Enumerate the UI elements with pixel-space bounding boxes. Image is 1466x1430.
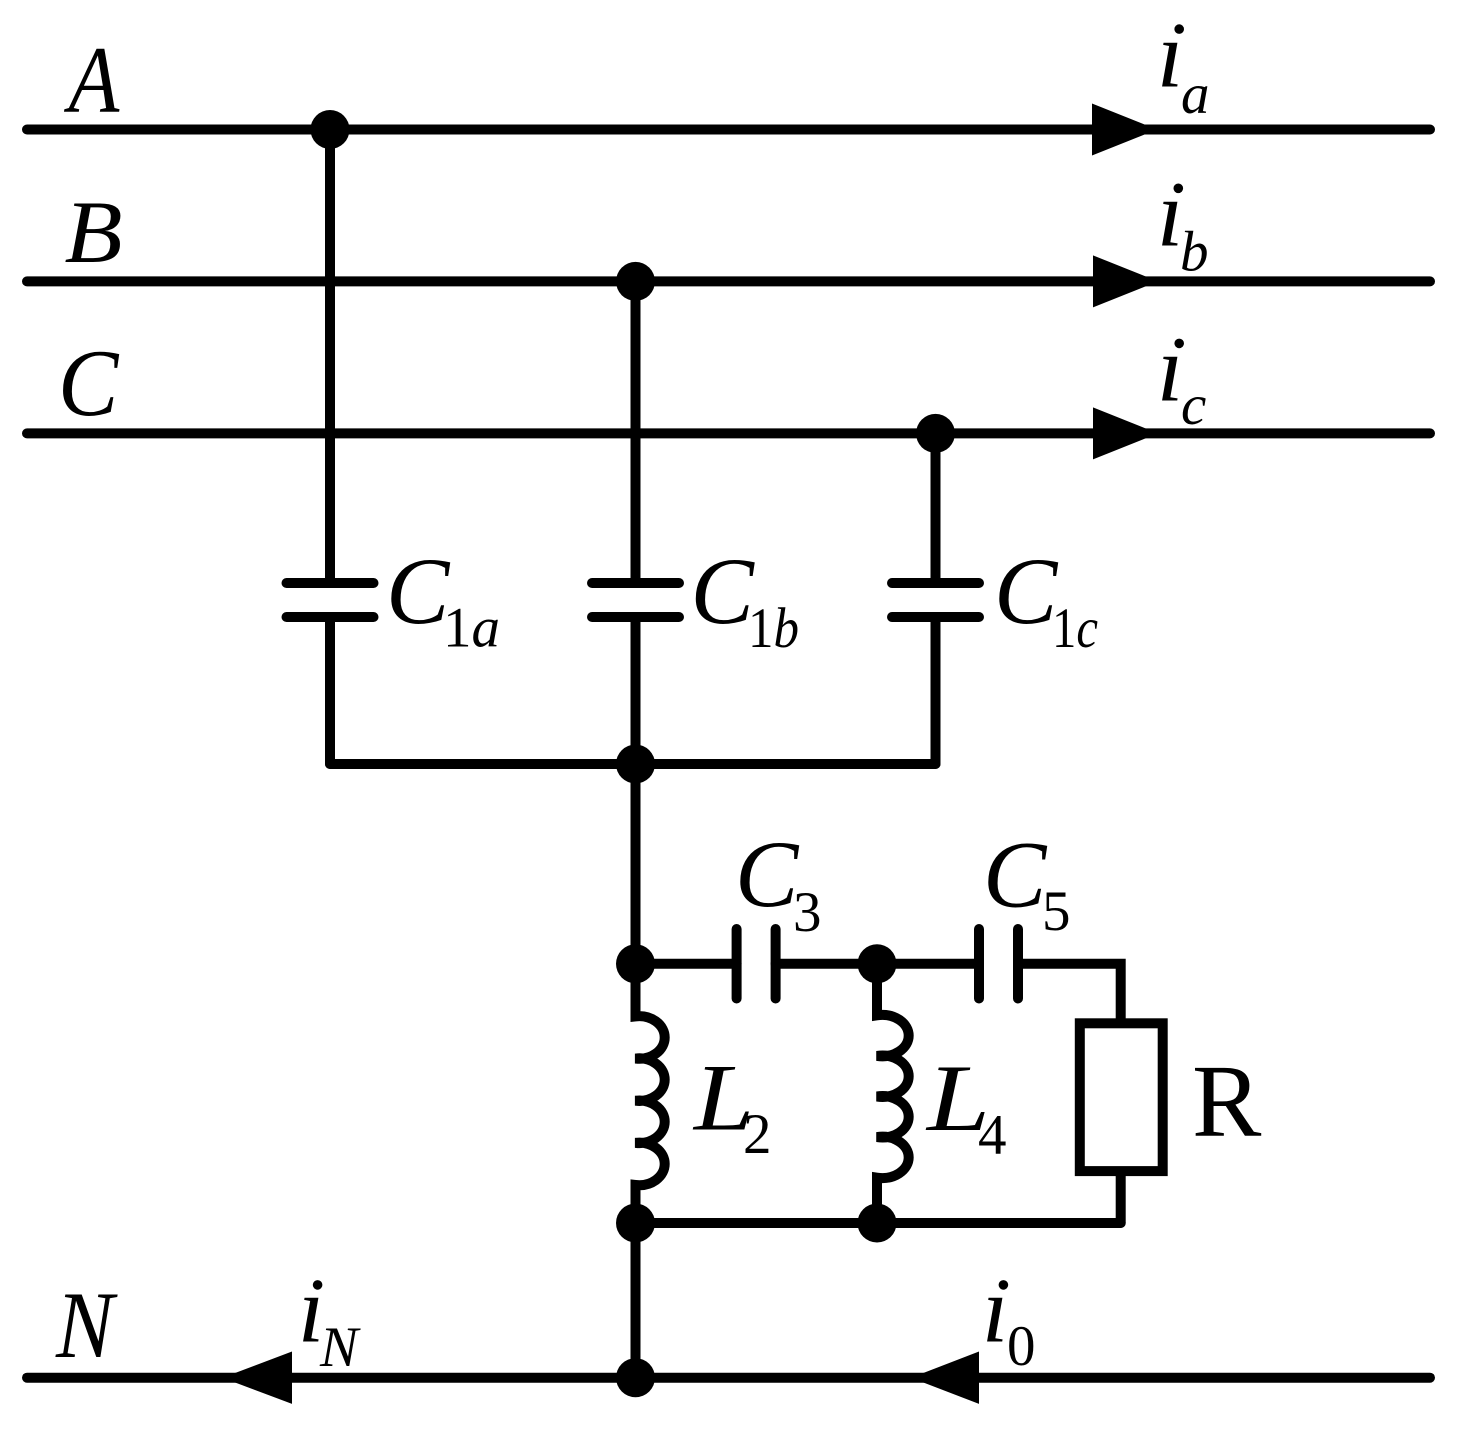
svg-text:ı: ı — [982, 1257, 1008, 1363]
arrow current iN — [223, 1352, 293, 1404]
wire node to C3 — [636, 959, 737, 969]
wire R bottom to bottom bus — [1116, 1176, 1126, 1223]
wire C1a bottom to bus — [325, 621, 335, 764]
svg-text:R: R — [1192, 1044, 1262, 1159]
node dot on line N — [616, 1358, 655, 1397]
wire bus joining capacitors — [330, 759, 936, 769]
capacitor C1a — [287, 578, 374, 588]
svg-text:B: B — [65, 183, 123, 282]
svg-text:5: 5 — [1042, 880, 1071, 943]
node dot bottom left — [616, 1204, 655, 1243]
capacitor C5 — [974, 929, 984, 999]
wire phase C tap down to C1c — [931, 433, 941, 579]
svg-text:ı: ı — [1157, 316, 1183, 422]
svg-text:1a: 1a — [443, 597, 500, 660]
wire mid node to C5 — [877, 959, 979, 969]
svg-text:3: 3 — [793, 881, 822, 944]
node dot bottom middle — [858, 1204, 897, 1243]
svg-text:N: N — [55, 1272, 118, 1378]
wire C5 to R branch corner — [1018, 964, 1121, 1019]
svg-text:c: c — [1181, 374, 1206, 437]
wire node down to line N — [631, 1223, 641, 1378]
inductor L4 — [877, 964, 909, 1223]
capacitor C3 — [732, 929, 742, 999]
node dot on capacitor bus — [616, 745, 655, 784]
svg-text:C: C — [735, 821, 800, 927]
arrow current ib — [1093, 255, 1158, 307]
node dot on line C — [916, 414, 955, 453]
svg-text:b: b — [1180, 221, 1209, 284]
wire phase B tap down to C1b — [631, 281, 641, 579]
svg-text:0: 0 — [1007, 1315, 1036, 1378]
svg-text:4: 4 — [978, 1104, 1007, 1167]
arrow current i0 — [911, 1352, 979, 1404]
svg-text:C: C — [58, 331, 119, 436]
svg-text:C: C — [994, 538, 1059, 644]
svg-text:1c: 1c — [1052, 597, 1098, 660]
wire line C — [27, 428, 1430, 438]
wire C1b bottom through bus to node — [631, 621, 641, 964]
wire line N — [27, 1373, 1430, 1383]
inductor L2 — [636, 964, 665, 1223]
svg-text:C: C — [983, 822, 1048, 928]
node dot at filter input node — [616, 944, 655, 983]
wire C1c bottom to bus — [931, 621, 941, 764]
wire bottom bus — [636, 1218, 1121, 1228]
svg-text:C: C — [691, 538, 756, 644]
wire C3 to mid node — [776, 959, 877, 969]
capacitor C1b — [592, 578, 679, 588]
node dot on line B — [616, 262, 655, 301]
svg-text:1b: 1b — [748, 597, 799, 660]
arrow current ia — [1092, 104, 1157, 156]
svg-text:2: 2 — [743, 1103, 772, 1166]
svg-text:A: A — [64, 28, 120, 133]
node dot between C3 and C5 — [858, 944, 897, 983]
wire phase A tap down to C1a — [325, 130, 335, 580]
svg-text:C: C — [386, 538, 451, 644]
svg-text:a: a — [1181, 63, 1210, 126]
node dot on line A — [311, 110, 350, 149]
svg-text:N: N — [319, 1316, 361, 1379]
wire line A — [27, 125, 1430, 135]
arrow current ic — [1093, 407, 1158, 459]
capacitor C1c — [892, 578, 979, 588]
resistor R — [1080, 1023, 1163, 1171]
wire line B — [27, 276, 1430, 286]
svg-text:ı: ı — [1157, 2, 1183, 108]
